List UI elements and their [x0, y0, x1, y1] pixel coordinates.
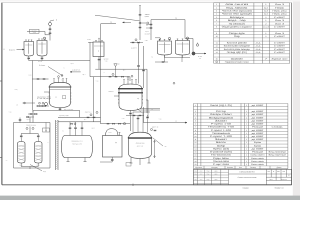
svg-text:Т-4: Т-4 [32, 111, 34, 113]
svg-text:10: 10 [195, 135, 197, 138]
svg-text:0,2: 0,2 [264, 13, 268, 16]
svg-text:вод та раствор: вод та раствор [64, 109, 74, 111]
svg-text:Ряды базы: Ряды базы [213, 157, 230, 160]
svg-text:4: 4 [216, 13, 217, 16]
svg-text:11: 11 [195, 138, 197, 141]
svg-text:Т-10: Т-10 [105, 60, 108, 62]
svg-text:Щ-М10: Щ-М10 [104, 58, 109, 60]
svg-text:Лин 3: Лин 3 [275, 32, 286, 35]
svg-text:8: 8 [195, 129, 196, 132]
svg-text:Щ-10: Щ-10 [91, 128, 94, 130]
svg-text:Т-4: Т-4 [62, 131, 64, 133]
svg-text:Т-10: Т-10 [9, 112, 12, 114]
svg-text:Т-10: Т-10 [122, 118, 125, 120]
svg-text:10: 10 [216, 35, 218, 38]
svg-text:Вещ линолеум: Вещ линолеум [269, 151, 287, 154]
svg-text:Лагерь Реакт: Лагерь Реакт [210, 113, 232, 116]
svg-text:Ст.ВНТ: Ст.ВНТ [274, 48, 286, 51]
svg-text:19: 19 [195, 163, 197, 166]
svg-text:Подп: Подп [207, 179, 210, 181]
svg-text:М-10: М-10 [87, 39, 90, 41]
svg-text:Шумовая: Шумовая [231, 57, 244, 60]
svg-text:3: 3 [195, 113, 196, 116]
svg-text:Изм: Изм [194, 179, 196, 181]
svg-text:Лист: Лист [200, 179, 203, 181]
svg-text:Т-10: Т-10 [96, 81, 99, 83]
svg-text:1: 1 [246, 160, 247, 163]
svg-text:см: см [6, 160, 8, 162]
svg-text:Нерж. реш: Нерж. реш [273, 13, 288, 16]
svg-text:1: 1 [246, 163, 247, 166]
svg-text:17: 17 [195, 157, 197, 160]
svg-text:ГОСТ для 1-РК: ГОСТ для 1-РК [72, 144, 82, 146]
svg-text:Кислота разн алкидн: Кислота разн алкидн [224, 48, 251, 51]
svg-text:Линза (АД-1-25): Линза (АД-1-25) [210, 104, 232, 107]
svg-text:Дата: Дата [215, 173, 218, 175]
svg-text:Кислота разн алкидная: Кислота разн алкидная [224, 45, 251, 48]
svg-text:Листов 1: Листов 1 [281, 179, 287, 181]
svg-text:По Вед НДР (РЕ): По Вед НДР (РЕ) [227, 51, 247, 54]
svg-text:М10/Т4: М10/Т4 [109, 91, 114, 93]
svg-text:Ст.ВНТ: Ст.ВНТ [274, 25, 286, 28]
svg-text:0,2: 0,2 [264, 6, 268, 9]
svg-text:Дата: Дата [215, 179, 218, 181]
svg-text:1: 1 [246, 104, 247, 107]
svg-text:Щ-10/Т-4: Щ-10/Т-4 [131, 48, 137, 50]
svg-text:Подп: Подп [207, 173, 210, 175]
svg-text:О-разное (м25): О-разное (м25) [210, 151, 232, 154]
svg-text:до 80ВТ: до 80ВТ [252, 123, 265, 126]
svg-text:Смеш покат: Смеш покат [251, 160, 264, 163]
svg-text:Ротор: Ротор [216, 110, 227, 113]
svg-text:1: 1 [246, 119, 247, 122]
svg-text:Подп: Подп [207, 171, 210, 173]
svg-text:-0,4-: -0,4- [255, 45, 262, 48]
svg-text:1: 1 [246, 151, 247, 154]
svg-text:Лин 3: Лин 3 [275, 19, 286, 22]
svg-text:1: 1 [246, 141, 247, 144]
svg-text:1: 1 [265, 32, 266, 35]
svg-text:1: 1 [265, 3, 266, 6]
svg-text:Кислота разная: Кислота разная [227, 41, 248, 44]
svg-text:до 80ВТ: до 80ВТ [252, 135, 265, 138]
svg-text:Щ-4: Щ-4 [83, 74, 86, 76]
svg-text:Щ-4: Щ-4 [123, 70, 126, 72]
svg-text:1: 1 [246, 132, 247, 135]
svg-text:1,5-2,5: 1,5-2,5 [263, 25, 269, 28]
svg-text:Айв синтез: Айв синтез [225, 3, 248, 6]
svg-text:Дата: Дата [215, 171, 218, 173]
svg-text:до 80ВТ: до 80ВТ [252, 116, 265, 119]
svg-text:Реакций: Реакций [252, 126, 263, 129]
svg-text:М-105: М-105 [198, 56, 202, 58]
svg-text:Щ-М10/Т-10: Щ-М10/Т-10 [72, 70, 80, 72]
svg-text:Щ-1к: Щ-1к [145, 31, 149, 33]
svg-text:до 80ВТ: до 80ВТ [252, 138, 265, 141]
svg-text:Смеш покат: Смеш покат [251, 157, 264, 160]
svg-text:Реакций: Реакций [252, 151, 263, 154]
svg-text:13: 13 [195, 144, 197, 147]
svg-text:Нерж: Нерж [275, 6, 285, 9]
svg-text:1: 1 [246, 116, 247, 119]
svg-text:Формат А4: Формат А4 [274, 187, 283, 190]
svg-text:Смеш пакетн: Смеш пакетн [251, 154, 265, 157]
svg-text:для Н-орг: для Н-орг [137, 146, 144, 148]
svg-text:18: 18 [195, 160, 197, 163]
svg-text:Тележенка: Тележенка [212, 132, 231, 135]
svg-text:1: 1 [216, 3, 217, 6]
svg-text:Р-щит база: Р-щит база [213, 163, 230, 166]
svg-text:Лит: Лит [268, 171, 271, 173]
svg-text:Ст.ВНТ: Ст.ВНТ [274, 45, 286, 48]
svg-text:5: 5 [216, 16, 217, 19]
svg-text:Шар: Шар [217, 144, 226, 147]
svg-text:Гидроизоляция пара: Гидроизоляция пара [225, 61, 250, 64]
svg-text:до 80ВТ: до 80ВТ [252, 147, 265, 150]
svg-text:Т-4: Т-4 [61, 80, 63, 82]
svg-text:По-волокно: По-волокно [211, 154, 232, 157]
svg-text:0,3: 0,3 [264, 10, 268, 13]
svg-text:-0,4-: -0,4- [255, 41, 262, 44]
svg-text:Щ-4: Щ-4 [84, 119, 87, 121]
svg-text:до 80ВТ: до 80ВТ [252, 132, 265, 135]
svg-text:Т-4: Т-4 [146, 25, 148, 27]
svg-text:Ст.ВНТ: Ст.ВНТ [274, 41, 286, 44]
svg-text:Тепловенты Т-50: Тепловенты Т-50 [208, 126, 235, 129]
svg-text:Т-3: Т-3 [151, 57, 153, 59]
svg-text:М-10: М-10 [29, 75, 32, 77]
svg-text:14: 14 [195, 147, 197, 150]
svg-text:1: 1 [246, 110, 247, 113]
svg-text:1: 1 [246, 123, 247, 126]
svg-text:до 80ВТ: до 80ВТ [252, 110, 265, 113]
svg-text:Смеш покат: Смеш покат [251, 163, 264, 166]
svg-text:Вод. аммиак: Вод. аммиак [226, 6, 247, 9]
svg-text:5: 5 [195, 119, 196, 122]
svg-text:1: 1 [246, 126, 247, 129]
svg-text:2: 2 [216, 6, 217, 9]
svg-text:≈: ≈ [104, 72, 105, 74]
svg-text:вод: вод [43, 171, 46, 173]
svg-text:Р-пресс 1-100: Р-пресс 1-100 [211, 129, 232, 132]
svg-text:13: 13 [216, 48, 218, 51]
svg-text:16: 16 [195, 154, 197, 157]
svg-text:Лин 3: Лин 3 [275, 3, 286, 6]
svg-text:Нерж. реш: Нерж. реш [273, 10, 288, 13]
svg-text:до 80ВТ: до 80ВТ [252, 129, 265, 132]
svg-text:Т-10: Т-10 [187, 44, 190, 46]
svg-text:Пресс (м3): Пресс (м3) [213, 147, 229, 150]
svg-text:4: 4 [195, 116, 196, 119]
svg-text:14: 14 [216, 51, 218, 54]
svg-text:6: 6 [195, 123, 196, 126]
svg-text:Захват: Захват [215, 119, 227, 122]
svg-text:Журнал лист: Журнал лист [272, 57, 288, 60]
svg-text:Этап 4 р-к: Этап 4 р-к [85, 111, 92, 113]
svg-text:Т-3: Т-3 [189, 55, 191, 57]
svg-text:1: 1 [265, 19, 266, 22]
svg-text:Вещ пакетный: Вещ пакетный [269, 154, 286, 157]
svg-text:Ст.ВНТ: Ст.ВНТ [274, 16, 286, 19]
svg-text:1: 1 [246, 113, 247, 116]
svg-text:Захват: Захват [215, 138, 227, 141]
svg-text:Лист: Лист [269, 179, 272, 181]
svg-text:до 80ВТ: до 80ВТ [252, 119, 265, 122]
svg-text:Сводка: Сводка [242, 187, 248, 190]
svg-text:1: 1 [195, 104, 196, 107]
svg-text:Ст.ВНТ: Ст.ВНТ [274, 51, 286, 54]
svg-text:Пр (газовый): Пр (газовый) [229, 22, 245, 25]
svg-text:-0,4-: -0,4- [255, 48, 262, 51]
svg-text:6: 6 [216, 19, 217, 22]
svg-text:2: 2 [195, 110, 196, 113]
svg-text:Т-3: Т-3 [199, 58, 201, 60]
svg-text:1: 1 [246, 154, 247, 157]
svg-text:Брак: Брак [254, 141, 261, 144]
svg-text:М-10: М-10 [109, 132, 112, 134]
svg-text:Р-пресс 1-50: Р-пресс 1-50 [211, 123, 232, 126]
svg-text:Щ-10: Щ-10 [26, 119, 29, 121]
svg-text:2: 2 [265, 35, 266, 38]
svg-text:в атм: в атм [38, 61, 42, 63]
svg-text:вода: вода [36, 164, 39, 166]
svg-text:Т-10: Т-10 [146, 16, 149, 18]
svg-text:до 80ВТ: до 80ВТ [252, 104, 265, 107]
svg-text:1: 1 [246, 135, 247, 138]
svg-text:Схема технологическая: Схема технологическая [238, 176, 257, 179]
svg-text:Т-10: Т-10 [117, 64, 120, 66]
svg-text:1: 1 [246, 157, 247, 160]
svg-text:Т-10: Т-10 [145, 40, 148, 42]
svg-text:Ст.ВНТ: Ст.ВНТ [274, 35, 286, 38]
svg-text:9: 9 [195, 132, 196, 135]
svg-text:1: 1 [246, 147, 247, 150]
svg-text:12: 12 [216, 45, 218, 48]
svg-text:до 80ВТ: до 80ВТ [252, 113, 265, 116]
svg-text:Лист: Лист [200, 173, 203, 175]
svg-text:7: 7 [216, 22, 217, 25]
svg-text:2: 2 [246, 129, 247, 132]
svg-text:-0,4-: -0,4- [255, 51, 262, 54]
svg-text:Словарь: Словарь [272, 126, 283, 129]
svg-text:Р-пресс Т-100: Р-пресс Т-100 [210, 135, 233, 138]
svg-text:Брак: Брак [254, 144, 261, 147]
svg-text:2: 2 [265, 22, 266, 25]
svg-text:Щ-10: Щ-10 [70, 63, 73, 65]
svg-text:ВД-5 Т-10: ВД-5 Т-10 [152, 126, 159, 128]
svg-text:Изм: Изм [194, 171, 196, 173]
svg-text:8: 8 [216, 25, 217, 28]
svg-text:Общий уровень и жидкости: Общий уровень и жидкости [222, 25, 253, 28]
svg-text:3: 3 [216, 10, 217, 13]
svg-text:Своды едок: Своды едок [229, 32, 245, 35]
svg-text:вода: вода [19, 164, 22, 166]
svg-text:12: 12 [195, 141, 197, 144]
svg-text:7: 7 [195, 126, 196, 129]
svg-text:Вода - пар: Вода - пар [228, 19, 247, 22]
svg-text:1: 1 [246, 138, 247, 141]
svg-text:11: 11 [216, 41, 218, 44]
svg-text:Воздух: Воздух [230, 16, 246, 19]
svg-text:Т-10: Т-10 [159, 119, 162, 121]
svg-text:15: 15 [195, 151, 197, 154]
svg-text:Чистка техн (днище): Чистка техн (днище) [222, 13, 252, 16]
svg-text:15: 15 [151, 109, 153, 111]
svg-text:СМ111.00.00 ПЗ: СМ111.00.00 ПЗ [240, 171, 256, 174]
svg-text:ЧР: ЧР [16, 105, 18, 107]
svg-text:Лин 3: Лин 3 [275, 22, 286, 25]
svg-text:1: 1 [246, 144, 247, 147]
svg-text:дренаж у воды: дренаж у воды [59, 115, 68, 117]
svg-text:Поилка база: Поилка база [213, 160, 230, 163]
svg-text:Лист: Лист [200, 171, 203, 173]
svg-text:Т-8: Т-8 [45, 130, 47, 132]
svg-text:М-105/Т-3: М-105/Т-3 [145, 34, 152, 36]
svg-text:9: 9 [216, 32, 217, 35]
svg-text:2: 2 [265, 16, 266, 19]
svg-text:Мас: Мас [277, 171, 280, 173]
svg-text:Изм: Изм [194, 173, 196, 175]
svg-text:Валок: Валок [216, 141, 226, 144]
svg-text:Чистка техн (крышка): Чистка техн (крышка) [222, 10, 252, 13]
svg-text:15: 15 [216, 57, 218, 60]
svg-text:Воздуходувка: Воздуходувка [209, 116, 234, 119]
